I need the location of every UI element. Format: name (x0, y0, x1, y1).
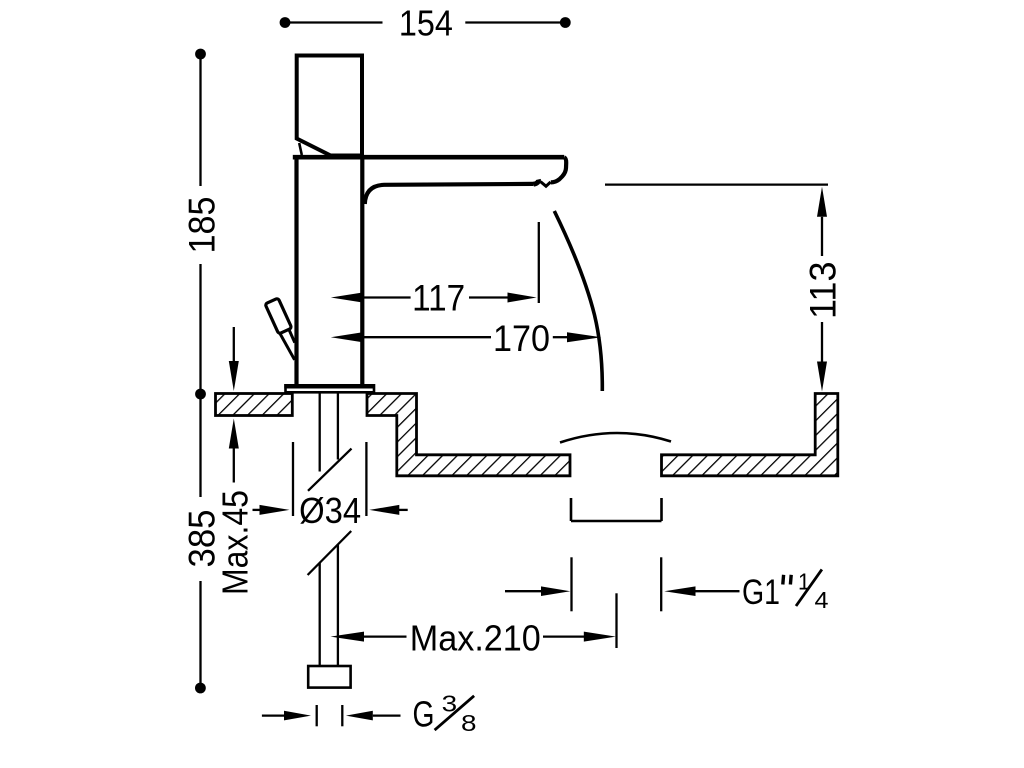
dimension 117 line (331, 293, 363, 303)
countertop right piece (662, 394, 838, 476)
dimension 185 end dots (195, 49, 206, 60)
svg-text:4: 4 (815, 587, 829, 613)
supply pipe upper (319, 393, 321, 472)
svg-text:8: 8 (461, 710, 477, 736)
dimension Ø34 left arrow (253, 509, 263, 511)
svg-text:G1: G1 (742, 572, 780, 612)
svg-text:G: G (413, 694, 435, 735)
handle sliver line (299, 143, 302, 155)
svg-text:Ø34: Ø34 (299, 490, 361, 531)
dimension Max.210 right arrow (543, 635, 584, 637)
countertop step piece (367, 394, 570, 476)
drain arc (560, 433, 671, 443)
dimension G3/8 ticks (316, 705, 318, 726)
dimension 385 end dot (195, 683, 206, 694)
pipe break slash 2 (308, 531, 352, 575)
drain bracket (571, 498, 662, 521)
base plate (286, 385, 375, 392)
lever stem (279, 333, 294, 360)
countertop left block (216, 394, 293, 416)
spout underside (365, 184, 534, 204)
dimension 154 line (285, 21, 565, 23)
faucet body right edge (360, 157, 364, 386)
handle top block (297, 56, 362, 156)
svg-text:154: 154 (399, 2, 453, 43)
dimension 170 line (331, 332, 363, 342)
dimension G1 1/4 left arrow (505, 590, 542, 592)
spout tip edge (551, 157, 566, 182)
dimension 113 up arrow (817, 187, 827, 217)
svg-text:113: 113 (801, 261, 843, 319)
dimension Max.45 lower arrow (233, 443, 235, 483)
spout top line (293, 155, 564, 160)
aerator hook (534, 179, 539, 184)
dimension 185 line (199, 54, 201, 394)
svg-text:Max.45: Max.45 (215, 490, 256, 595)
aerator notch (541, 182, 551, 187)
dimension Max.210 left arrow (331, 632, 365, 642)
base plate top line (284, 384, 374, 388)
dimension G3/8 left arrow (262, 714, 285, 716)
pipe nut (308, 666, 350, 688)
dimension G3/8 right arrow (346, 711, 373, 721)
dimension 385 line (199, 394, 201, 688)
dimension 113 extension line (605, 184, 828, 186)
dimension Max.210 tick (615, 593, 617, 648)
dimension 154 end dots (280, 17, 291, 28)
svg-text:117: 117 (412, 278, 465, 319)
svg-text:170: 170 (493, 318, 550, 359)
svg-text:185: 185 (180, 197, 222, 254)
dimension 117 tick (538, 222, 540, 303)
dimension Ø34 right arrow (369, 505, 399, 515)
faucet body left edge (294, 157, 298, 386)
pipe break slash 1 (308, 449, 352, 491)
water stream (554, 211, 602, 391)
dimension G1 1/4 right arrow (664, 586, 695, 596)
supply pipe lower (319, 563, 321, 667)
dimension Max.45 upper arrow (233, 327, 235, 365)
lever knob (265, 298, 292, 334)
svg-text:Max.210: Max.210 (410, 617, 541, 658)
dimension Ø34 ticks (292, 442, 294, 516)
dimension 113 down arrow (821, 322, 823, 362)
dimension G1 1/4 ticks (570, 557, 572, 611)
